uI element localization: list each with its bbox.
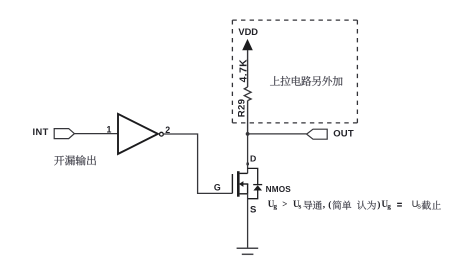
junction dot <box>246 132 250 136</box>
wire junction down to drain <box>247 134 249 174</box>
svg-text:INT: INT <box>33 127 49 137</box>
svg-text:>: > <box>282 199 287 209</box>
svg-text:S: S <box>250 205 256 216</box>
wire inverter output to NMOS gate <box>164 134 233 193</box>
wire source to ground <box>247 194 249 248</box>
port INT connector <box>54 129 74 139</box>
wire resistor to junction <box>247 101 249 134</box>
svg-text:4.7K: 4.7K <box>239 59 250 83</box>
transistor Q1 NMOS <box>232 171 248 197</box>
wire VDD to resistor <box>247 50 249 87</box>
svg-text:NMOS: NMOS <box>266 185 292 194</box>
label 开漏输出 (open-drain output) <box>54 155 96 165</box>
svg-text:OUT: OUT <box>333 128 354 139</box>
svg-text:(: ( <box>328 200 331 211</box>
svg-text:R29: R29 <box>236 99 247 118</box>
wire join nub <box>246 163 249 166</box>
resistor R29 <box>244 87 251 101</box>
wire junction to OUT port <box>248 133 307 135</box>
ground <box>237 248 259 254</box>
wire INT to inverter input <box>74 133 118 135</box>
label Ug/Us condition <box>268 199 392 211</box>
inverter output bubble <box>160 132 164 136</box>
pull-up region dashed box <box>232 20 357 123</box>
svg-text:): ) <box>377 200 380 211</box>
svg-text:s: s <box>299 202 302 211</box>
VDD power arrow symbol <box>242 39 253 50</box>
inverter U1 <box>118 114 158 154</box>
svg-text:g: g <box>387 202 391 211</box>
svg-text:D: D <box>250 154 256 164</box>
port OUT connector <box>307 129 328 139</box>
svg-text:1: 1 <box>107 125 112 135</box>
label 上拉电路另外加 (pull-up circuit added externally) <box>270 76 343 86</box>
body diode <box>248 168 263 198</box>
svg-text:VDD: VDD <box>238 27 258 37</box>
svg-text:G: G <box>214 182 221 192</box>
svg-text:g: g <box>273 202 277 211</box>
svg-text:s: s <box>417 202 421 211</box>
